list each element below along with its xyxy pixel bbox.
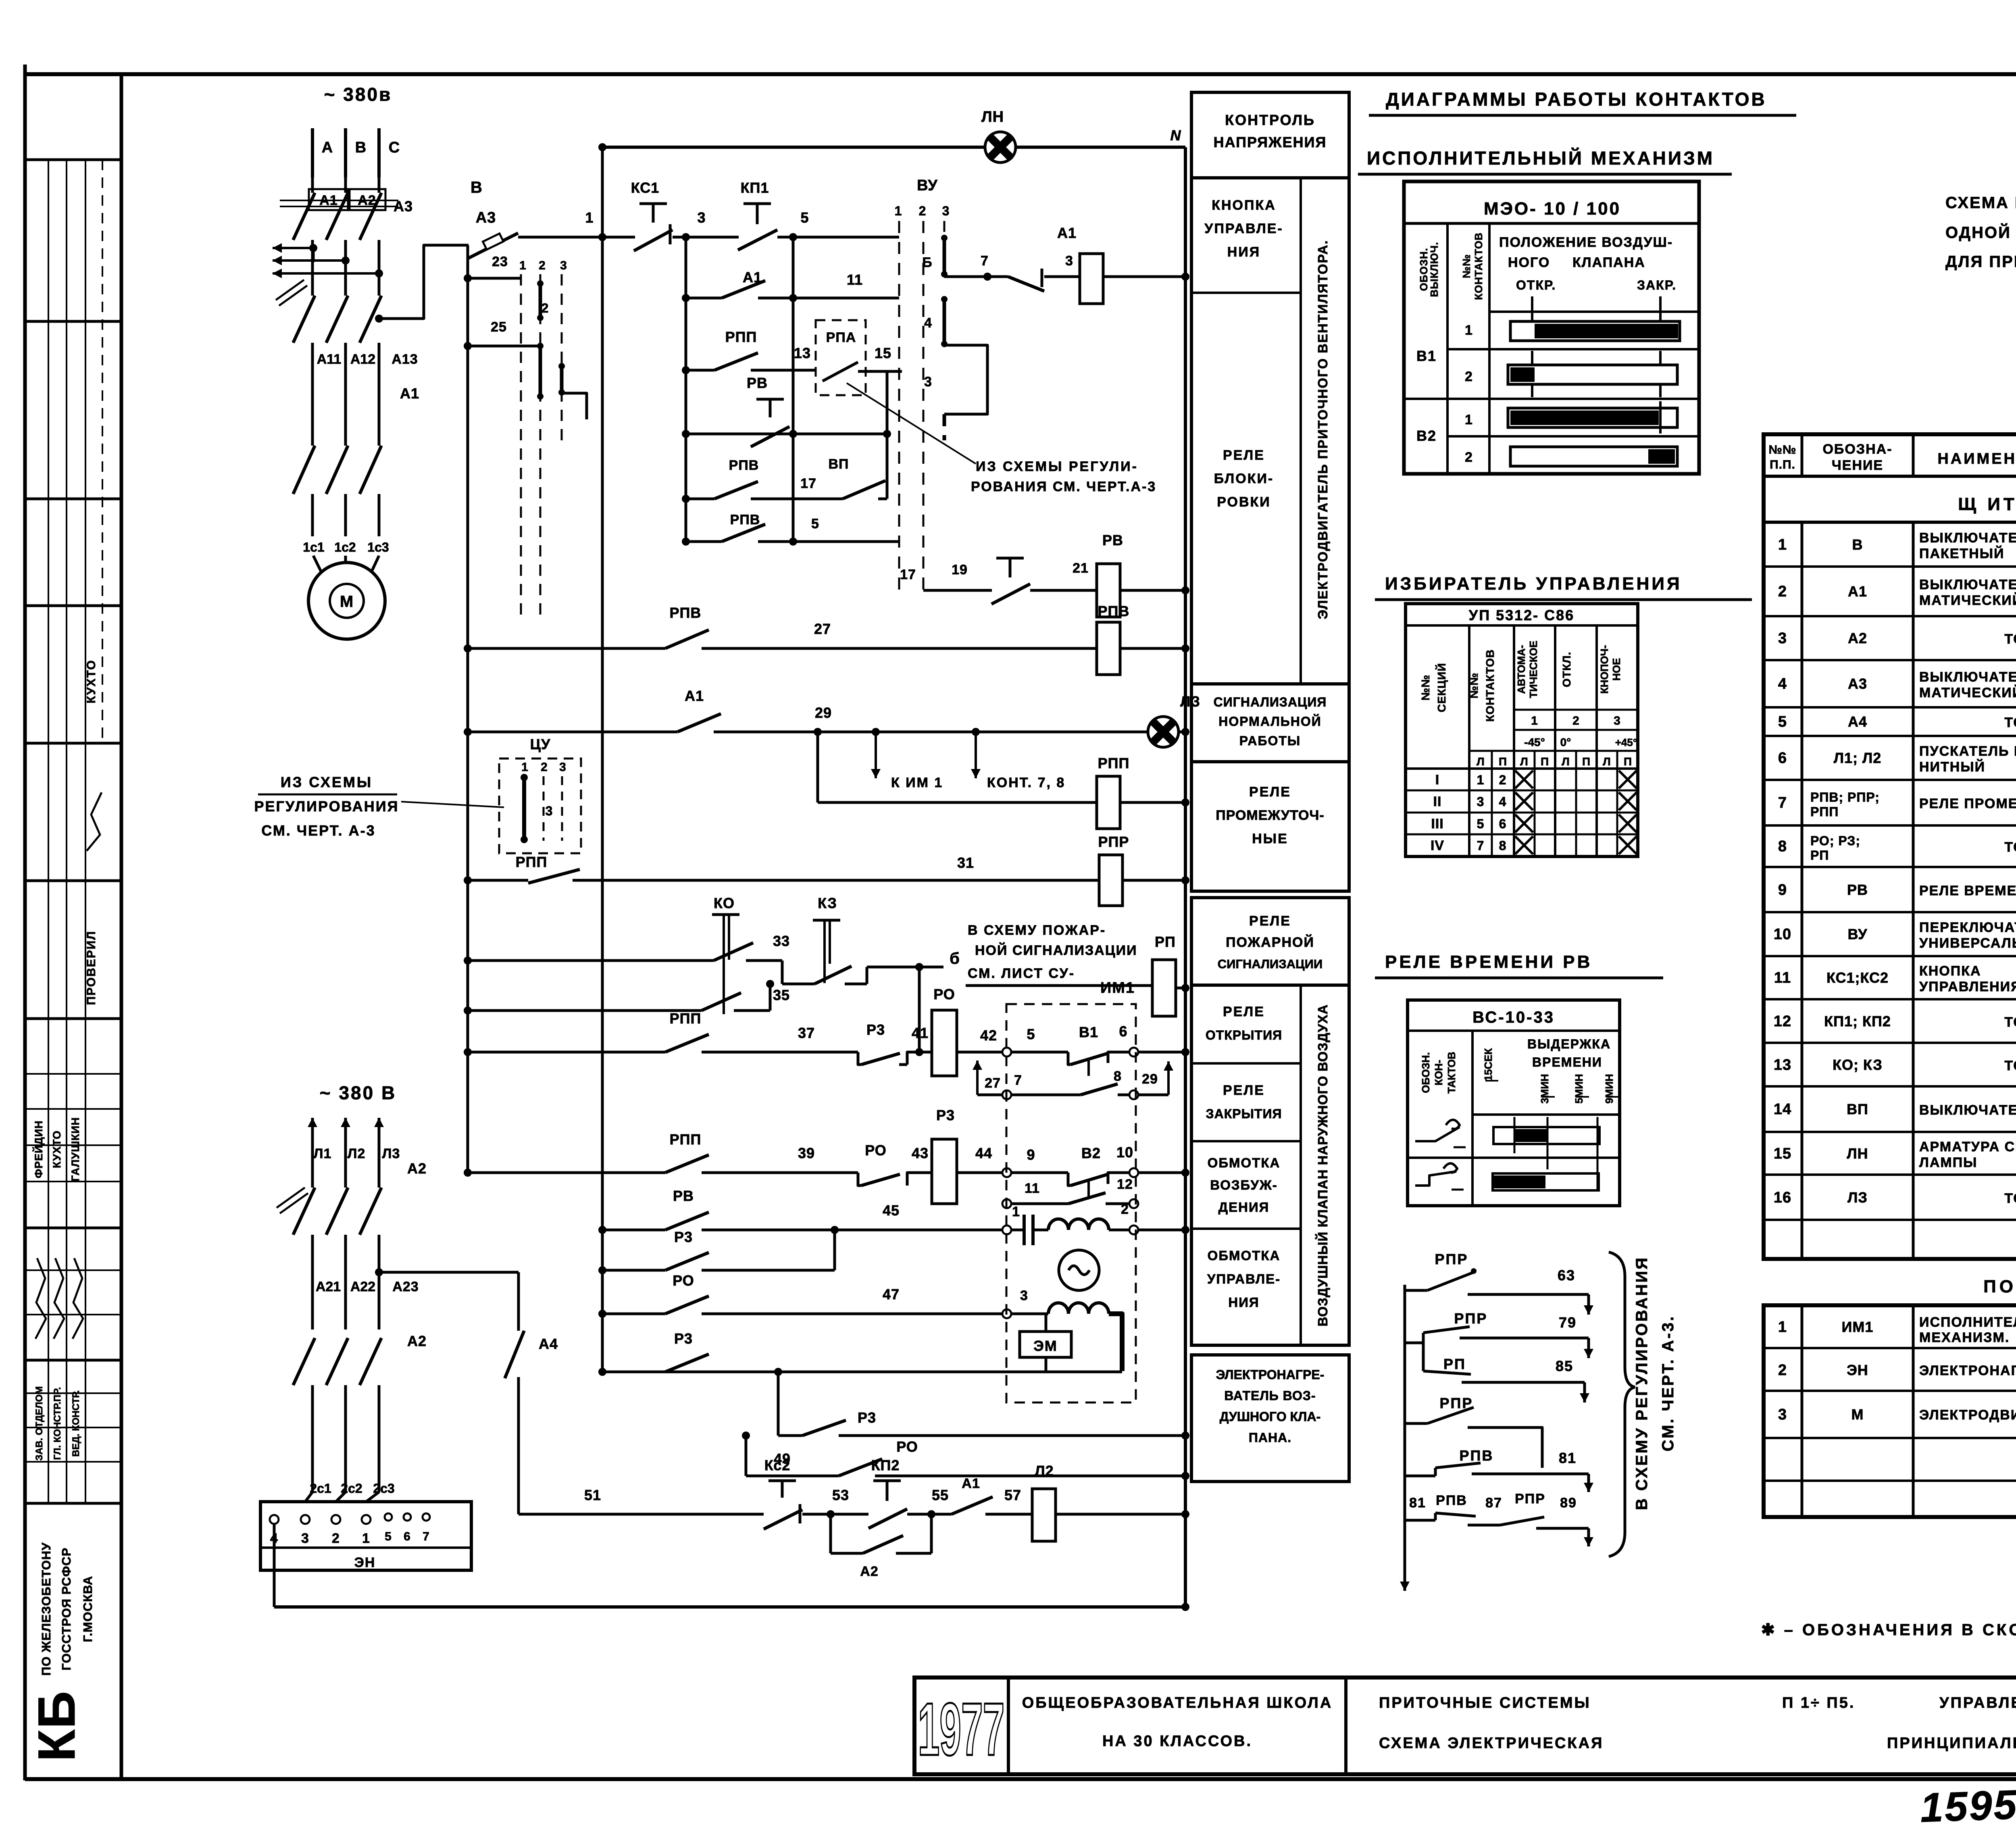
svg-text:РПР: РПР (1435, 1251, 1468, 1267)
svg-text:А3: А3 (476, 209, 496, 226)
cell rele promezhutochnye (1191, 762, 1349, 891)
svg-text:4: 4 (924, 315, 932, 331)
sheet frame top border (24, 72, 2016, 76)
svg-text:М: М (1851, 1406, 1864, 1423)
svg-text:Л: Л (1603, 755, 1611, 768)
svg-text:11: 11 (1025, 1181, 1040, 1196)
CU dashed box (499, 759, 581, 853)
svg-text:3: 3 (560, 259, 567, 272)
wire phase C to A3 switch (379, 245, 469, 319)
svg-text:СИГНАЛИЗАЦИИ: СИГНАЛИЗАЦИИ (1218, 957, 1322, 971)
svg-text:ПО: ПО (1983, 1277, 2016, 1296)
svg-text:ПЕРЕКЛЮЧАТЕЛЬ: ПЕРЕКЛЮЧАТЕЛЬ (1919, 920, 2016, 935)
function column upper block (1191, 178, 1349, 684)
svg-text:АВТОМА-: АВТОМА- (1515, 645, 1527, 694)
rung RV 45 capacitor winding 2 (602, 1229, 665, 1232)
svg-text:2: 2 (1121, 1202, 1129, 1217)
svg-text:27: 27 (814, 621, 831, 637)
svg-text:3: 3 (942, 204, 950, 218)
RV row divider (1408, 1157, 1620, 1159)
svg-text:Л1: Л1 (314, 1146, 332, 1161)
svg-text:КП1: КП1 (741, 179, 769, 196)
svg-text:5: 5 (1778, 713, 1787, 730)
svg-text:РО: РО (933, 986, 955, 1002)
svg-text:-45°: -45° (1524, 736, 1545, 748)
svg-text:НАПРЯЖЕНИЯ: НАПРЯЖЕНИЯ (1214, 134, 1327, 150)
disconnect A4 (505, 1331, 524, 1378)
svg-text:57: 57 (1004, 1487, 1021, 1503)
svg-text:РОВАНИЯ СМ. ЧЕРТ.А-3: РОВАНИЯ СМ. ЧЕРТ.А-3 (971, 479, 1156, 494)
svg-text:А21: А21 (316, 1279, 341, 1294)
svg-text:РПП: РПП (670, 1010, 702, 1027)
svg-text:ЭН: ЭН (1847, 1362, 1868, 1378)
MEO table outer box (1404, 181, 1699, 474)
svg-text:6: 6 (1778, 750, 1787, 767)
svg-text:СИГНАЛИЗАЦИЯ: СИГНАЛИЗАЦИЯ (1214, 695, 1327, 709)
svg-text:Р3: Р3 (936, 1107, 955, 1123)
svg-text:А2: А2 (407, 1160, 427, 1177)
svg-text:2: 2 (539, 259, 546, 272)
sheet frame left border (23, 65, 27, 1780)
svg-text:ГЛ. КОНСТР.ПР.: ГЛ. КОНСТР.ПР. (52, 1387, 63, 1460)
svg-text:ПРИНЦИПИАЛЬНАЯ.: ПРИНЦИПИАЛЬНАЯ. (1887, 1735, 2016, 1752)
winding 2 (1048, 1303, 1068, 1314)
MEO bar B1 contact1 (1510, 321, 1680, 341)
svg-text:РПВ: РПВ (670, 604, 702, 621)
svg-text:НИЯ: НИЯ (1227, 244, 1260, 260)
svg-text:ВУ: ВУ (917, 177, 938, 194)
svg-text:РПВ: РПВ (730, 512, 760, 527)
mini bus end arrow (1404, 1565, 1406, 1591)
svg-text:ЛАМПЫ: ЛАМПЫ (1919, 1155, 1977, 1170)
svg-text:1: 1 (519, 259, 527, 272)
svg-text:1с1: 1с1 (303, 540, 324, 554)
svg-text:ВОЗБУЖ-: ВОЗБУЖ- (1210, 1177, 1278, 1192)
svg-text:РАБОТЫ: РАБОТЫ (1239, 734, 1301, 748)
svg-text:А22: А22 (350, 1279, 375, 1294)
IM1 dashed box (1006, 1004, 1136, 1402)
svg-text:РЕЛЕ ПРОМЕЖУТОЧНОЕ: РЕЛЕ ПРОМЕЖУТОЧНОЕ (1919, 796, 2016, 811)
svg-text:25: 25 (491, 319, 507, 335)
svg-text:ПОЛОЖЕНИЕ ВОЗДУШ-: ПОЛОЖЕНИЕ ВОЗДУШ- (1499, 235, 1673, 250)
rail 1 with KO blade 33 (468, 959, 714, 962)
svg-text:21: 21 (1073, 561, 1089, 576)
svg-text:ТО ЖЕ: ТО ЖЕ (2004, 715, 2016, 730)
RV table outer (1408, 1000, 1620, 1206)
svg-text:47: 47 (883, 1286, 900, 1302)
svg-text:ЛН: ЛН (981, 108, 1004, 125)
bus A vertical (467, 245, 469, 1175)
mini schematic left bus (1404, 1285, 1406, 1577)
segment on dashed 3 (560, 365, 564, 393)
svg-text:ДЕНИЯ: ДЕНИЯ (1218, 1200, 1270, 1215)
bus N right vertical (1184, 147, 1187, 1607)
left strip horizontal dividers (25, 158, 121, 161)
svg-text:ЭЛЕКТРОНАГРЕВАТЕЛЬ: ЭЛЕКТРОНАГРЕВАТЕЛЬ (1919, 1363, 2016, 1378)
svg-text:НОГО: НОГО (1508, 255, 1550, 270)
function column lower block (1191, 985, 1349, 1345)
svg-text:ВП: ВП (1847, 1101, 1868, 1117)
svg-text:А1: А1 (400, 385, 419, 402)
svg-text:Щ ИТ: Щ ИТ (1958, 494, 2016, 514)
svg-text:1: 1 (1465, 412, 1473, 427)
rung RPP coil (814, 728, 822, 736)
svg-text:ВЫДЕРЖКА: ВЫДЕРЖКА (1527, 1037, 1611, 1051)
svg-text:РО: РО (865, 1142, 887, 1159)
svg-text:5: 5 (800, 209, 809, 226)
svg-text:33: 33 (773, 933, 790, 949)
svg-text:3: 3 (697, 209, 706, 226)
svg-text:П: П (1624, 755, 1632, 768)
svg-text:44: 44 (975, 1145, 992, 1161)
svg-text:1977: 1977 (918, 1688, 1005, 1771)
spec table header row (1764, 475, 2016, 478)
svg-text:2с2: 2с2 (341, 1481, 362, 1496)
vertical from RPA to RV rung (886, 371, 889, 499)
svg-text:7: 7 (981, 253, 989, 269)
svg-text:3: 3 (1778, 630, 1787, 647)
izbiratel header UP5312-S86 (1406, 624, 1638, 627)
svg-text:П.П.: П.П. (1770, 458, 1795, 471)
svg-text:В: В (355, 139, 367, 156)
svg-text:7: 7 (1778, 794, 1787, 811)
contact A1 (952, 1497, 993, 1514)
arrows to IM1 (872, 728, 880, 736)
svg-text:6: 6 (1119, 1023, 1127, 1040)
rung RPV coil 27 (468, 647, 665, 650)
svg-text:3: 3 (559, 761, 566, 774)
svg-text:1: 1 (1531, 714, 1538, 727)
svg-text:2: 2 (1465, 450, 1473, 465)
svg-text:81: 81 (1559, 1450, 1577, 1466)
svg-text:РЕЛЕ: РЕЛЕ (1223, 448, 1265, 463)
spec table column lines upper (1801, 522, 1804, 1259)
MEO tick open (1531, 296, 1533, 323)
MEO tick closed (1659, 296, 1662, 323)
MEO bar B2 contact1 (1508, 408, 1677, 427)
svg-text:КБ: КБ (27, 1690, 86, 1762)
wire 23 from bus A (468, 277, 521, 280)
svg-text:2: 2 (332, 1531, 340, 1546)
branch 11 12 (1002, 1199, 1011, 1208)
svg-text:29: 29 (1142, 1071, 1158, 1087)
rung RPV 17 VP (686, 498, 714, 500)
svg-text:В2: В2 (1416, 427, 1437, 444)
rung R3 join (602, 1269, 665, 1272)
svg-text:Р3: Р3 (866, 1021, 885, 1038)
svg-text:А4: А4 (539, 1336, 558, 1352)
svg-text:А1: А1 (962, 1476, 980, 1491)
V1 contact (1068, 1052, 1070, 1065)
svg-text:РПА: РПА (826, 330, 856, 345)
svg-text:ОДНОЙ ПРИТОЧНОЙ СИСТЕМЫ.: ОДНОЙ ПРИТОЧНОЙ СИСТЕМЫ. (1945, 223, 2016, 242)
svg-text:Р3: Р3 (674, 1330, 693, 1347)
svg-text:МЕХАНИЗМ.: МЕХАНИЗМ. (1919, 1330, 2010, 1345)
svg-text:6: 6 (404, 1530, 411, 1543)
winding 1 (1048, 1219, 1068, 1230)
svg-text:12: 12 (1774, 1013, 1791, 1030)
svg-text:ЭЛЕКТРОНАГРЕ-: ЭЛЕКТРОНАГРЕ- (1216, 1367, 1325, 1382)
rung 31 RPR coil (468, 879, 528, 882)
IM1 left terminal on rung 42 (1002, 1048, 1011, 1057)
top N line with lamp LN (602, 146, 985, 149)
svg-text:37: 37 (798, 1025, 815, 1041)
EM box (1045, 1314, 1048, 1332)
svg-text:ЭМ: ЭМ (1033, 1338, 1058, 1354)
svg-text:79: 79 (1559, 1314, 1577, 1331)
spec table shield automation band (1764, 521, 2016, 524)
RV contact symbol row2 (1415, 1171, 1456, 1186)
svg-text:КНОПОЧ-: КНОПОЧ- (1598, 645, 1610, 694)
svg-text:ИСПОЛНИТЕЛЬНЫЙ МЕХАНИЗМ: ИСПОЛНИТЕЛЬНЫЙ МЕХАНИЗМ (1367, 148, 1714, 169)
svg-text:А1: А1 (1848, 583, 1867, 600)
svg-text:Б: Б (922, 255, 932, 270)
izbiratel sub row 1 2 3 (1514, 709, 1638, 711)
svg-text:НА 30 КЛАССОВ.: НА 30 КЛАССОВ. (1102, 1733, 1252, 1750)
svg-text:Р3: Р3 (674, 1229, 693, 1245)
svg-text:5: 5 (1477, 817, 1485, 831)
svg-text:10: 10 (1774, 926, 1791, 943)
sync motor (1059, 1250, 1099, 1290)
svg-text:ВП: ВП (829, 456, 849, 472)
svg-text:РЕЛЕ ВРЕМЕНИ: РЕЛЕ ВРЕМЕНИ (1919, 883, 2016, 898)
svg-text:10: 10 (1116, 1144, 1133, 1161)
KZ blade (814, 966, 852, 984)
push button KP2 (873, 1480, 901, 1482)
svg-text:ТИЧЕСКОЕ: ТИЧЕСКОЕ (1527, 641, 1539, 698)
title block vertical dividers (1007, 1678, 1010, 1774)
svg-text:1с3: 1с3 (367, 540, 389, 554)
svg-text:№№: №№ (1468, 673, 1480, 698)
svg-text:~ 380в: ~ 380в (324, 84, 392, 105)
MEO table column dividers (1446, 223, 1449, 474)
svg-text:41: 41 (912, 1025, 929, 1041)
breaker V trip bar (280, 200, 398, 201)
contactor A1 poles (311, 262, 314, 296)
svg-text:РП: РП (1155, 934, 1176, 950)
svg-text:РПП: РПП (1098, 755, 1130, 771)
svg-text:15954-06: 15954-06 (1919, 1778, 2016, 1831)
svg-text:ТО ЖЕ: ТО ЖЕ (2004, 1015, 2016, 1030)
svg-text:2: 2 (541, 301, 549, 315)
svg-text:б: б (950, 950, 960, 967)
rung R3 return (602, 1371, 1122, 1373)
svg-text:III: III (1431, 816, 1443, 831)
svg-text:ЛЗ: ЛЗ (1847, 1189, 1868, 1206)
svg-text:ВУ: ВУ (1847, 926, 1867, 942)
svg-text:А: А (322, 139, 333, 156)
svg-text:РО; РЗ;: РО; РЗ; (1810, 834, 1860, 848)
junction vertical to rung 37 (918, 967, 921, 1052)
svg-text:РВ: РВ (673, 1188, 694, 1204)
izbiratel mode col headers (1513, 625, 1515, 856)
svg-text:УП 5312- С86: УП 5312- С86 (1469, 607, 1574, 623)
RV bar row1 (1493, 1127, 1599, 1144)
svg-text:РО: РО (896, 1438, 918, 1455)
MEO bar B2 contact2 (1510, 447, 1677, 466)
svg-text:3: 3 (1020, 1288, 1028, 1303)
RV bar row2 (1493, 1173, 1599, 1190)
svg-text:СХЕМА И СПЕЦИФИКАЦИЯ ДАН: СХЕМА И СПЕЦИФИКАЦИЯ ДАНЫ ДЛЯ (1945, 194, 2016, 212)
rung 39 R3 coil 44 9 V2 10 (468, 1171, 665, 1174)
svg-text:КУХТО: КУХТО (51, 1130, 63, 1168)
svg-text:1: 1 (585, 209, 594, 226)
svg-text:Л2: Л2 (1035, 1463, 1054, 1479)
breaker designation boxes A1 A2 and labels (309, 189, 348, 210)
svg-text:2: 2 (1778, 1362, 1787, 1379)
svg-text:19: 19 (952, 562, 968, 577)
svg-text:+45°: +45° (1615, 736, 1637, 748)
svg-text:85: 85 (1556, 1358, 1573, 1374)
VU hook to RP rung (944, 275, 987, 278)
svg-text:11: 11 (1774, 969, 1791, 986)
winding to EM heavy corner (1109, 1314, 1122, 1371)
svg-text:КОНТАКТОВ: КОНТАКТОВ (1484, 649, 1496, 722)
contactor A2 poles lower (293, 1338, 315, 1385)
svg-text:8: 8 (1114, 1069, 1122, 1084)
svg-text:15: 15 (1774, 1145, 1791, 1162)
spec table outer box upper (1764, 434, 2016, 1259)
bypass contact A2 (829, 1514, 832, 1553)
RPA dashed box (816, 320, 866, 395)
cell rele pozharnoj signalizacii (1191, 898, 1349, 985)
svg-text:А4: А4 (1848, 713, 1867, 730)
MEO row dividers (1447, 348, 1699, 350)
svg-text:ОТКР.: ОТКР. (1516, 278, 1556, 292)
svg-text:КНОПКА: КНОПКА (1919, 963, 1981, 979)
svg-text:КС1;КС2: КС1;КС2 (1826, 969, 1889, 986)
svg-text:4: 4 (1778, 675, 1787, 692)
svg-text:НОРМАЛЬНОЙ: НОРМАЛЬНОЙ (1218, 714, 1322, 729)
svg-text:ОТКРЫТИЯ: ОТКРЫТИЯ (1206, 1028, 1282, 1042)
svg-text:9МИН: 9МИН (1603, 1074, 1615, 1104)
svg-text:А3: А3 (394, 198, 413, 215)
svg-text:ПОЖАРНОЙ: ПОЖАРНОЙ (1226, 934, 1314, 950)
svg-text:6: 6 (1499, 817, 1507, 831)
svg-text:ЦУ: ЦУ (530, 736, 551, 752)
svg-text:ЗАКРЫТИЯ: ЗАКРЫТИЯ (1206, 1107, 1282, 1121)
svg-text:РЕЛЕ: РЕЛЕ (1223, 1083, 1265, 1098)
svg-text:П: П (1499, 755, 1507, 768)
izbiratel L P row (1469, 750, 1638, 752)
feeder tap arrows (273, 247, 313, 249)
svg-text:№№: №№ (1419, 675, 1432, 700)
svg-text:Л: Л (1520, 755, 1528, 768)
svg-text:В2: В2 (1081, 1145, 1101, 1161)
svg-text:ИСПОЛНИТЕЛЬНЫЙ: ИСПОЛНИТЕЛЬНЫЙ (1919, 1314, 2016, 1330)
svg-text:ВЕД. КОНСТР.: ВЕД. КОНСТР. (71, 1390, 81, 1457)
svg-text:А2: А2 (407, 1333, 427, 1349)
spec table row lines (1764, 565, 2016, 568)
svg-text:1: 1 (521, 761, 529, 774)
svg-text:ИМ1: ИМ1 (1100, 979, 1135, 996)
svg-text:КО; КЗ: КО; КЗ (1833, 1057, 1883, 1073)
svg-text:РПП: РПП (516, 854, 548, 870)
svg-text:ТО ЖЕ: ТО ЖЕ (2004, 1191, 2016, 1206)
svg-text:4: 4 (1499, 794, 1507, 809)
svg-text:П: П (1582, 755, 1590, 768)
svg-text:ЛЗ: ЛЗ (1180, 693, 1200, 710)
wire terminal 4 to bottom bus (273, 1524, 276, 1607)
izbiratel inner verticals (1491, 751, 1493, 856)
svg-text:В СХЕМУ РЕГУЛИРОВАНИЯ: В СХЕМУ РЕГУЛИРОВАНИЯ (1633, 1256, 1651, 1510)
svg-text:МАТИЧЕСКИЙ: МАТИЧЕСКИЙ (1919, 592, 2016, 608)
svg-text:3: 3 (924, 374, 932, 390)
bottom return wire (274, 1605, 1185, 1609)
svg-text:ОБОЗН.: ОБОЗН. (1420, 1052, 1432, 1093)
svg-text:НОЕ: НОЕ (1610, 658, 1622, 681)
svg-text:В СХЕМУ ПОЖАР-: В СХЕМУ ПОЖАР- (968, 923, 1106, 938)
izbiratel rotated headers (1468, 625, 1470, 856)
svg-text:РВ: РВ (747, 375, 768, 391)
svg-text:Л1; Л2: Л1; Л2 (1834, 750, 1882, 766)
svg-text:ТАКТОВ: ТАКТОВ (1445, 1052, 1458, 1094)
rung RPB 5 (686, 540, 722, 543)
svg-text:ИЗ СХЕМЫ: ИЗ СХЕМЫ (281, 774, 373, 790)
branch 27 7 8 29 (976, 1061, 979, 1095)
svg-text:КОНТРОЛЬ: КОНТРОЛЬ (1225, 112, 1315, 128)
title block outer box (914, 1678, 2016, 1774)
function column box kontrol napryazheniya (1191, 92, 1349, 178)
svg-text:РВ: РВ (1102, 532, 1123, 548)
svg-text:IV: IV (1431, 838, 1444, 853)
svg-text:ЛН: ЛН (1847, 1145, 1868, 1162)
svg-text:15СЕК: 15СЕК (1482, 1048, 1494, 1081)
svg-text:РП: РП (1443, 1356, 1466, 1372)
svg-text:БЛОКИ-: БЛОКИ- (1214, 471, 1274, 486)
svg-text:I: I (1435, 772, 1439, 788)
svg-text:КОНТАКТОВ: КОНТАКТОВ (1472, 232, 1485, 300)
svg-text:А1: А1 (1057, 225, 1077, 241)
svg-text:РЕЛЕ ВРЕМЕНИ РВ: РЕЛЕ ВРЕМЕНИ РВ (1385, 952, 1592, 972)
svg-text:А13: А13 (392, 352, 418, 367)
left strip signature (87, 792, 102, 851)
svg-text:ДЛЯ ПРИТОЧНЫХ СИСТЕМ П1÷П5: ДЛЯ ПРИТОЧНЫХ СИСТЕМ П1÷П5 СХЕМА АНАЛОГИ… (1945, 253, 2016, 271)
svg-text:РОВКИ: РОВКИ (1217, 494, 1270, 510)
rung RPP 13 RPA 15 (686, 369, 714, 372)
svg-text:СХЕМА ЭЛЕКТРИЧЕСКАЯ: СХЕМА ЭЛЕКТРИЧЕСКАЯ (1379, 1735, 1604, 1752)
svg-text:П 1÷ П5.: П 1÷ П5. (1782, 1694, 1855, 1711)
svg-text:8: 8 (1499, 838, 1507, 853)
breaker V poles (311, 177, 314, 193)
svg-text:А2: А2 (1848, 630, 1867, 646)
svg-text:УПРАВЛЕНИЯ: УПРАВЛЕНИЯ (1919, 979, 2016, 994)
bus B vertical (601, 147, 604, 1373)
svg-text:3: 3 (1778, 1406, 1787, 1423)
phase arrows L1 L2 L3 (311, 1118, 314, 1171)
svg-text:5: 5 (385, 1530, 392, 1543)
svg-text:81: 81 (1409, 1495, 1426, 1511)
svg-text:2: 2 (1778, 583, 1787, 600)
svg-text:5: 5 (1027, 1026, 1035, 1042)
svg-text:89: 89 (1560, 1495, 1577, 1511)
svg-text:Л: Л (1562, 755, 1570, 768)
svg-text:ВЫКЛЮЧАТЕЛЬ ПАКЕТНЫЙ: ВЫКЛЮЧАТЕЛЬ ПАКЕТНЫЙ (1919, 1102, 2016, 1118)
svg-text:14: 14 (1774, 1101, 1791, 1118)
svg-text:2: 2 (1465, 369, 1473, 384)
svg-text:1: 1 (1778, 1319, 1787, 1336)
svg-text:9: 9 (1027, 1146, 1035, 1163)
svg-text:Л2: Л2 (348, 1146, 366, 1161)
svg-text:7: 7 (1477, 838, 1485, 853)
svg-text:17: 17 (900, 567, 916, 582)
svg-text:УПРАВЛЕ-: УПРАВЛЕ- (1204, 221, 1283, 236)
push button KC1 (639, 202, 667, 205)
RV header VS-10-33 (1408, 1029, 1620, 1032)
push button KC2 (768, 1480, 796, 1482)
svg-text:2: 2 (919, 204, 927, 218)
motor leads (313, 556, 323, 575)
